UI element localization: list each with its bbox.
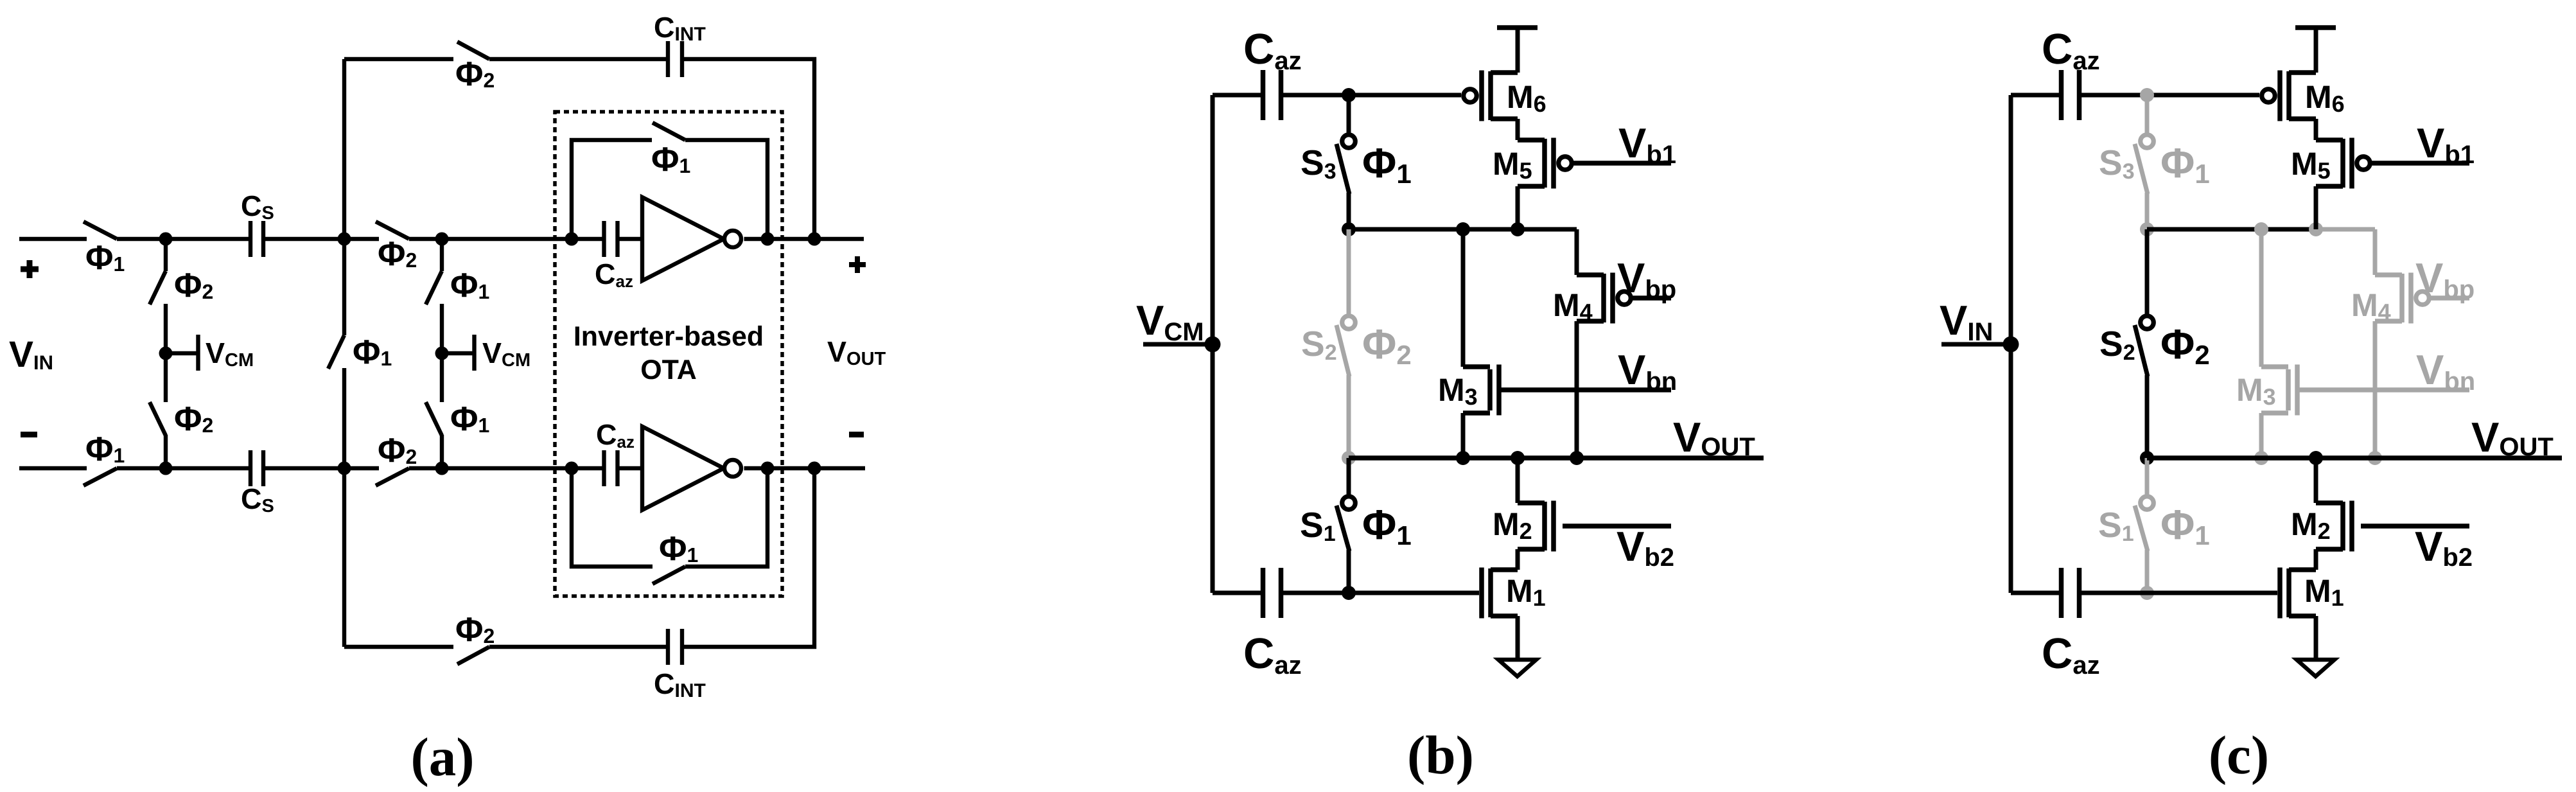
node S2 bottom <box>1342 451 1356 465</box>
transistor M1 (NMOS) <box>1482 568 1518 619</box>
wire bottom Caz left <box>1213 591 1261 595</box>
svg-text:M5: M5 <box>1493 146 1532 184</box>
wire S1 stub <box>2145 458 2150 495</box>
svg-text:S3: S3 <box>2099 143 2135 184</box>
wire Vbn <box>1499 387 1671 392</box>
node bottom output branch <box>808 462 821 475</box>
svg-text:Φ1: Φ1 <box>450 400 489 438</box>
svg-text:Vb1: Vb1 <box>2417 119 2475 169</box>
label plus output <box>849 256 866 273</box>
node A3 top <box>435 233 449 246</box>
wire bottom integration loop left <box>344 645 453 649</box>
svg-text:Φ1: Φ1 <box>659 530 698 568</box>
node M2 drain at Vout <box>1511 451 1525 465</box>
node B2 bottom <box>338 462 351 475</box>
svg-text:M3: M3 <box>1438 372 1478 410</box>
svg-text:VCM: VCM <box>482 337 530 371</box>
wire M4 drain down <box>2373 321 2378 458</box>
node S1 bottom <box>2140 586 2154 600</box>
switch PHI1 top input <box>83 222 117 239</box>
capacitor Caz top panel b <box>1263 70 1281 120</box>
svg-text:Φ2: Φ2 <box>2160 321 2210 370</box>
wire M2 drain up <box>1516 458 1520 503</box>
wire VDD to M6 source <box>1516 28 1520 73</box>
svg-text:OTA: OTA <box>640 355 697 385</box>
wire M4 source up <box>1575 229 1579 275</box>
svg-text:Vbp: Vbp <box>1617 254 1676 304</box>
wire Vb2 <box>1563 524 1671 529</box>
svg-text:(b): (b) <box>1407 725 1474 786</box>
wire S2 lower <box>1347 375 1351 458</box>
power VDD bar <box>1497 25 1538 30</box>
svg-text:VIN: VIN <box>1940 297 1993 346</box>
wire left rail <box>1211 95 1215 593</box>
node M4 drain at Vout <box>2368 451 2382 465</box>
switch PHI2 bottom mid <box>376 468 409 486</box>
switch S2 <box>1336 316 1355 376</box>
svg-text:Φ1: Φ1 <box>353 333 392 371</box>
transistor M2 (NMOS) <box>1518 501 1554 552</box>
wire mid node row <box>2147 227 2316 232</box>
power VDD bar <box>2295 25 2336 30</box>
wire top feedback right <box>685 140 767 239</box>
wire top loop to output <box>681 59 814 239</box>
svg-text:Vb1: Vb1 <box>1618 119 1676 169</box>
label minus input <box>21 432 37 437</box>
svg-text:M6: M6 <box>2305 79 2345 117</box>
wire Vb1 <box>1572 161 1671 166</box>
wire M2 source to M1 drain <box>1516 549 1520 570</box>
wire S2 upper <box>2145 229 2150 316</box>
switch PHI1 upper right branch <box>426 271 442 304</box>
wire M2 source to M1 drain <box>2314 549 2318 570</box>
svg-text:Φ1: Φ1 <box>450 267 489 304</box>
transistor M5 (PMOS) <box>2316 138 2352 189</box>
svg-text:Caz: Caz <box>1243 25 1302 75</box>
svg-text:Φ2: Φ2 <box>1362 321 1412 370</box>
capacitor Caz top panel c <box>2062 70 2080 120</box>
wire bottom Caz to M1 gate <box>1283 591 1479 595</box>
wire M4 source up <box>2373 229 2378 275</box>
transistor M5 (PMOS) <box>1518 138 1554 189</box>
svg-text:VOUT: VOUT <box>827 335 886 369</box>
wire S3 lower <box>1347 193 1351 229</box>
svg-text:VOUT: VOUT <box>1673 414 1755 461</box>
wire center column upper <box>342 59 346 335</box>
node top inverter output <box>761 233 775 246</box>
node A2 top <box>338 233 351 246</box>
wire M4 drain down <box>1575 321 1579 458</box>
switch PHI2 lower left branch <box>150 402 166 436</box>
node input VIN <box>2003 337 2019 353</box>
wire M3 source down <box>2259 413 2264 458</box>
wire mid node row gray segment <box>2316 227 2375 232</box>
svg-text:S2: S2 <box>1301 324 1337 365</box>
svg-text:Vbn: Vbn <box>2416 346 2475 396</box>
svg-text:Φ2: Φ2 <box>174 400 213 438</box>
transistor M5 (PMOS) gate bubble <box>1559 157 1572 170</box>
transistor M4 (PMOS) gate bubble <box>1618 292 1631 305</box>
wire top feedback loop <box>572 140 652 239</box>
capacitor CS top <box>250 221 263 257</box>
svg-text:Caz: Caz <box>2042 25 2100 75</box>
transistor M3 (NMOS) <box>1463 365 1499 416</box>
node mid M3 <box>1456 222 1470 236</box>
label plus input <box>21 260 39 278</box>
wire to VCM node left <box>164 304 168 402</box>
svg-text:M2: M2 <box>2291 506 2331 544</box>
wire branch A1 down <box>164 239 168 271</box>
switch S1 <box>1336 497 1355 551</box>
wire S3 stub <box>1347 95 1351 136</box>
wire S1 lower <box>1347 550 1351 593</box>
wire M5 drain to node <box>1516 186 1520 229</box>
svg-text:Caz: Caz <box>595 258 633 291</box>
capacitor CAZ bottom <box>604 450 618 486</box>
wire top rail input segment <box>19 237 87 241</box>
node M4 drain at Vout <box>1570 451 1584 465</box>
node OTA input top <box>565 233 579 246</box>
wire center column lower <box>342 368 346 468</box>
wire top integration loop left <box>344 57 453 61</box>
VCM tick bar left <box>196 335 200 371</box>
svg-text:CS: CS <box>241 189 274 224</box>
wire input stub VCM <box>1143 342 1213 347</box>
wire Vbp <box>1631 295 1671 301</box>
wire branch A3 down <box>440 239 444 271</box>
VCM tick bar right <box>472 335 476 371</box>
node S1 bottom <box>1342 586 1356 600</box>
node M2 drain at Vout <box>2309 451 2323 465</box>
capacitor CAZ top <box>604 221 618 257</box>
wire top output <box>744 237 864 241</box>
node S3 bottom <box>2140 222 2154 236</box>
wire M6 drain to M5 <box>1516 119 1520 140</box>
switch S3 <box>2135 135 2153 194</box>
node S3 top <box>1342 88 1356 102</box>
wire center column to bottom loop <box>342 468 346 647</box>
wire bottom loop to output <box>681 468 814 647</box>
wire Vout rail <box>2147 455 2562 461</box>
wire S2 lower <box>2145 375 2150 458</box>
switch PHI2 top mid <box>376 222 409 239</box>
svg-text:S1: S1 <box>1300 505 1336 546</box>
switch S3 <box>1336 135 1355 194</box>
wire bottom Caz left <box>2011 591 2059 595</box>
switch PHI1 top feedback <box>653 123 685 140</box>
node S3 top <box>2140 88 2154 102</box>
svg-text:Vbp: Vbp <box>2415 254 2475 304</box>
wire bottom Caz to M1 gate <box>2081 591 2277 595</box>
wire S1 lower <box>2145 550 2150 593</box>
svg-text:M1: M1 <box>1506 573 1546 611</box>
wire left rail <box>2009 95 2013 593</box>
transistor M4 (PMOS) <box>2375 273 2411 324</box>
wire M3 drain up <box>1461 229 1466 367</box>
VCM tick wire left <box>166 351 198 355</box>
svg-text:Vb2: Vb2 <box>2415 523 2473 572</box>
svg-text:VCM: VCM <box>206 337 254 371</box>
svg-text:(c): (c) <box>2209 725 2269 786</box>
OTA dashed box <box>555 112 782 596</box>
switch PHI2 upper left branch <box>150 271 166 304</box>
capacitor CINT bottom <box>668 629 682 665</box>
inverter bottom (OTA) <box>642 427 741 510</box>
wire M5 drain to node <box>2314 186 2318 229</box>
wire M1 source down <box>1516 616 1520 660</box>
node top output branch <box>808 233 821 246</box>
wire to VCM node right <box>440 304 444 402</box>
svg-text:M4: M4 <box>1553 287 1593 325</box>
wire Vbp <box>2429 295 2469 301</box>
wire branch to B3 <box>440 435 444 468</box>
wire mid node row <box>1349 227 1577 232</box>
node input VCM <box>1205 337 1221 353</box>
wire S3 lower <box>2145 193 2150 229</box>
switch S1 <box>2135 497 2153 551</box>
wire top Caz left <box>1213 93 1261 98</box>
transistor M2 (NMOS) <box>2316 501 2352 552</box>
wire bottom feedback right <box>685 468 767 567</box>
capacitor Caz bottom panel b <box>1263 568 1281 618</box>
wire branch to B1 <box>164 435 168 468</box>
svg-text:Φ1: Φ1 <box>1362 139 1412 189</box>
switch PHI2 bottom loop <box>457 647 489 664</box>
ground symbol <box>2297 660 2335 676</box>
wire Caz to inverter top <box>617 237 644 241</box>
transistor M5 (PMOS) gate bubble <box>2357 157 2370 170</box>
wire top rail: Cs to node A2 <box>263 237 379 241</box>
svg-text:Vbn: Vbn <box>1618 346 1677 396</box>
node S2 bottom <box>2140 451 2154 465</box>
svg-text:M4: M4 <box>2351 287 2391 325</box>
transistor M6 (PMOS) gate bubble <box>2262 89 2275 103</box>
svg-text:Vb2: Vb2 <box>1617 523 1674 572</box>
node VCM left <box>159 347 173 360</box>
switch PHI2 top loop <box>457 42 489 59</box>
wire bottom rail to Cs <box>117 466 251 470</box>
wire top rail: to node A3 and OTA input <box>409 237 605 241</box>
wire Vbn <box>2297 387 2469 392</box>
transistor M4 (PMOS) <box>1577 273 1613 324</box>
wire M2 drain up <box>2314 458 2318 503</box>
wire top Caz to M6 gate <box>2081 93 2259 98</box>
svg-text:M3: M3 <box>2236 372 2276 410</box>
capacitor Caz bottom panel c <box>2062 568 2080 618</box>
svg-text:Caz: Caz <box>596 418 635 452</box>
transistor M3 (NMOS) <box>2261 365 2297 416</box>
wire M1 source down <box>2314 616 2318 660</box>
svg-text:Φ2: Φ2 <box>455 55 495 93</box>
node S3 bottom <box>1342 222 1356 236</box>
svg-text:M6: M6 <box>1507 79 1546 117</box>
wire S1 stub <box>1347 458 1351 495</box>
wire input stub VIN <box>1941 342 2011 347</box>
node mid M5 drain <box>1511 222 1525 236</box>
wire VDD to M6 source <box>2314 28 2318 73</box>
switch S2 <box>2135 316 2153 376</box>
svg-text:Φ1: Φ1 <box>651 141 690 179</box>
wire M6 drain to M5 <box>2314 119 2318 140</box>
inverter top (OTA) <box>642 197 741 281</box>
wire Vb1 <box>2370 161 2469 166</box>
switch PHI1 lower right branch <box>426 402 442 436</box>
capacitor CINT top <box>668 41 682 77</box>
wire Caz to inverter bottom <box>617 466 644 470</box>
svg-text:(a): (a) <box>410 727 474 788</box>
svg-text:VOUT: VOUT <box>2471 414 2554 461</box>
svg-text:Φ1: Φ1 <box>1362 501 1412 550</box>
transistor M6 (PMOS) gate bubble <box>1464 89 1477 103</box>
svg-text:VCM: VCM <box>1136 297 1204 346</box>
switch PHI1 center column <box>328 335 344 369</box>
svg-text:Φ2: Φ2 <box>378 432 417 470</box>
node mid M5 drain <box>2309 222 2323 236</box>
svg-text:M5: M5 <box>2291 146 2331 184</box>
transistor M6 (PMOS) <box>1482 71 1518 121</box>
wire bottom rail to OTA input <box>409 466 605 470</box>
svg-text:M1: M1 <box>2304 573 2344 611</box>
node M3 source at Vout <box>1456 451 1470 465</box>
wire top Caz to M6 gate <box>1283 93 1461 98</box>
node M3 source at Vout <box>2254 451 2268 465</box>
svg-text:Φ1: Φ1 <box>85 239 125 277</box>
wire top Caz left <box>2011 93 2059 98</box>
node mid M3 <box>2254 222 2268 236</box>
transistor M6 (PMOS) <box>2280 71 2316 121</box>
svg-text:Caz: Caz <box>1243 629 1302 680</box>
svg-text:VIN: VIN <box>9 334 53 375</box>
node OTA input bottom <box>565 462 579 475</box>
node A1 top <box>159 233 173 246</box>
node VCM right <box>435 347 449 360</box>
svg-text:S1: S1 <box>2098 505 2134 546</box>
svg-text:Φ2: Φ2 <box>455 611 495 649</box>
wire S2 upper <box>1347 229 1351 316</box>
wire top loop to CINT <box>489 57 669 61</box>
svg-text:S3: S3 <box>1301 143 1336 184</box>
svg-text:Φ1: Φ1 <box>2160 501 2210 550</box>
wire M3 drain up <box>2259 229 2264 367</box>
svg-text:S2: S2 <box>2099 324 2135 365</box>
label minus output <box>849 432 864 437</box>
svg-text:Inverter-based: Inverter-based <box>574 321 764 352</box>
wire bottom rail input segment <box>19 466 87 470</box>
wire S3 stub <box>2145 95 2150 136</box>
svg-text:Φ1: Φ1 <box>85 430 125 468</box>
svg-text:Caz: Caz <box>2042 629 2100 680</box>
VCM tick wire right <box>442 351 474 355</box>
node B3 bottom <box>435 462 449 475</box>
wire bottom rail to node B2 <box>263 466 379 470</box>
wire M3 source down <box>1461 413 1466 458</box>
switch PHI1 bottom feedback <box>653 567 685 584</box>
svg-text:Φ2: Φ2 <box>174 267 213 304</box>
switch PHI1 bottom input <box>83 468 117 486</box>
wire top rail: node A1 to Cs <box>117 237 251 241</box>
wire Vb2 <box>2361 524 2469 529</box>
svg-text:M2: M2 <box>1493 506 1532 544</box>
svg-text:CINT: CINT <box>654 667 706 701</box>
wire bottom feedback loop <box>572 468 653 567</box>
svg-text:CINT: CINT <box>654 11 706 45</box>
svg-text:CS: CS <box>241 482 274 516</box>
capacitor CS bottom <box>250 450 263 486</box>
ground symbol <box>1498 660 1536 676</box>
wire bottom output <box>744 466 866 470</box>
transistor M4 (PMOS) gate bubble <box>2416 292 2430 305</box>
wire Vout rail <box>1349 455 1764 461</box>
transistor M1 (NMOS) <box>2280 568 2316 619</box>
svg-text:Φ1: Φ1 <box>2160 139 2210 189</box>
node bottom inverter output <box>761 462 775 475</box>
node B1 bottom <box>159 462 173 475</box>
wire bottom loop to CINT <box>489 645 669 649</box>
